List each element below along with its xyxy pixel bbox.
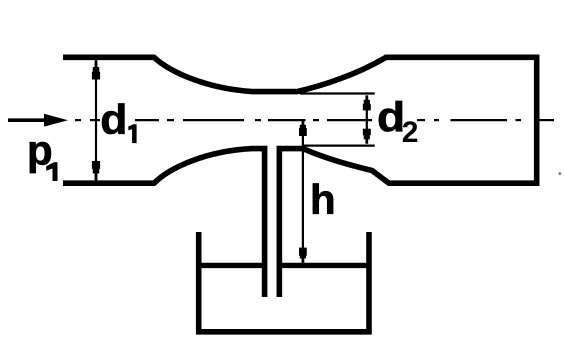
svg-text:2: 2 xyxy=(402,116,419,149)
svg-text:h: h xyxy=(310,176,336,223)
svg-text:d: d xyxy=(100,97,127,144)
